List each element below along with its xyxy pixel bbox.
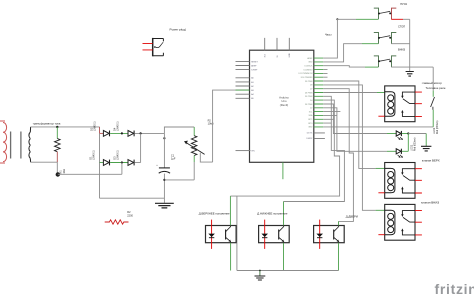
optocoupler U2 body	[206, 226, 237, 243]
wire AC1 red drop to D2	[99, 127, 101, 133]
wire to D1 anode	[100, 162, 104, 164]
junction top row	[121, 132, 123, 134]
svg-text:Часы: Часы	[325, 33, 332, 37]
wire to relay K1 coil	[323, 92, 377, 94]
wire bus wall to gnd bus	[236, 196, 238, 270]
wire to LED2	[323, 108, 387, 152]
diode D4	[128, 131, 134, 137]
wire AC2 riser	[121, 163, 123, 175]
ground bus stem	[259, 270, 261, 272]
wire S1 to gnd bus	[391, 18, 403, 20]
wire cap bottom	[163, 174, 165, 203]
svg-text:Д.ДВЕРИ: Д.ДВЕРИ	[346, 214, 358, 218]
wire LED1 to LED2 node	[407, 134, 409, 152]
svg-text:D5 PWM: D5 PWM	[305, 96, 313, 98]
svg-text:трансформатор тока: трансформатор тока	[33, 122, 61, 126]
relay K3 right pins	[415, 211, 422, 235]
wire transformer bottom	[31, 161, 58, 163]
svg-text:главный мотор: главный мотор	[422, 81, 442, 85]
relay K1 contacts	[402, 92, 415, 96]
wire opto U4 emitter down	[338, 243, 340, 271]
wire opto U2 emitter down	[230, 243, 232, 271]
optocoupler U3 LED	[261, 234, 268, 237]
ground switches	[406, 72, 414, 77]
optocoupler U2 transistor	[225, 230, 227, 240]
svg-text:Тепловое реле: Тепловое реле	[426, 86, 446, 90]
transformer T1 secondary coil	[29, 127, 31, 162]
optocoupler U3 body	[259, 226, 290, 243]
svg-text:(1N4001): (1N4001)	[95, 121, 97, 131]
rheostat lead bottom	[193, 156, 195, 163]
transformer T1 core	[11, 132, 21, 159]
svg-text:1µF: 1µF	[171, 157, 176, 161]
svg-text:D9 PWM: D9 PWM	[305, 81, 313, 83]
svg-text:+: +	[156, 164, 158, 167]
optocoupler U4 body	[314, 226, 345, 243]
relay K1 coil	[385, 92, 395, 116]
svg-text:D4: D4	[112, 127, 116, 131]
svg-text:fritzing: fritzing	[435, 281, 474, 297]
svg-text:клапан ВНИЗ: клапан ВНИЗ	[421, 200, 439, 204]
relay K2 coil	[385, 168, 395, 192]
svg-text:AREF: AREF	[307, 57, 313, 60]
svg-text:D10 PWM/SS: D10 PWM/SS	[301, 77, 313, 79]
relay K3 contacts	[402, 211, 415, 215]
wire bridge right vertical	[140, 133, 142, 162]
wire LED1 to ground	[408, 133, 426, 135]
svg-text:LED1: LED1	[410, 144, 413, 151]
Arduino right pins	[314, 58, 324, 127]
wire to opto U4	[323, 89, 353, 222]
resistor R1 lead bottom	[56, 152, 58, 163]
wire bridge left vertical DC-	[99, 133, 101, 198]
wire to opto U2	[230, 100, 339, 196]
svg-text:(1N4001): (1N4001)	[118, 121, 120, 131]
junction cap bottom	[163, 179, 165, 181]
svg-text:D8: D8	[310, 85, 312, 87]
rheostat R2 lead top	[193, 127, 195, 136]
svg-text:D3: D3	[112, 156, 116, 160]
svg-text:10Ω: 10Ω	[63, 169, 66, 174]
transformer T1 primary coil	[0, 121, 7, 163]
relay K3 body	[385, 204, 415, 240]
svg-text:ВНИЗ: ВНИЗ	[398, 48, 405, 52]
Arduino pin VIN	[236, 150, 251, 152]
optocoupler U3 LED pins	[264, 220, 266, 249]
switch S3 VNIZ	[374, 56, 379, 67]
relay K2 contacts	[402, 169, 415, 173]
wire LED1 cathode	[402, 133, 409, 135]
switch S1 PUSK	[374, 8, 379, 19]
LED LED2	[396, 149, 401, 154]
junction cap top	[163, 137, 165, 139]
ground LEDs	[421, 146, 431, 151]
wire to thermal relay contact	[323, 126, 433, 128]
switch S2 STOP	[374, 33, 379, 44]
rheostat arrow	[186, 142, 205, 154]
junction LED1 out	[407, 132, 409, 134]
ground optos	[255, 276, 266, 280]
optocoupler U4 transistor	[333, 230, 335, 240]
svg-text:D12/MISO: D12/MISO	[304, 69, 313, 71]
resistor R3 2200	[105, 220, 129, 224]
svg-text:Red (633nm): Red (633nm)	[437, 120, 439, 134]
wire stubs unused pins	[323, 70, 327, 78]
svg-text:(1N4001): (1N4001)	[118, 150, 120, 160]
wire wiper riser to A3	[213, 90, 236, 162]
svg-text:D4: D4	[310, 100, 312, 102]
wire to rheostat bottom	[164, 179, 194, 181]
wire to switch S2	[323, 44, 362, 62]
svg-text:(1N4001): (1N4001)	[94, 150, 96, 160]
wire S3 to thermal branch	[391, 66, 433, 68]
svg-text:3V3: 3V3	[265, 54, 267, 57]
svg-text:(Rev3): (Rev3)	[280, 103, 288, 107]
wire to opto U3	[284, 96, 345, 201]
svg-text:Power plug): Power plug)	[170, 28, 187, 32]
wire wiper elbow	[200, 153, 212, 162]
svg-text:AREF: AREF	[251, 64, 257, 67]
power plug pins	[143, 44, 153, 50]
svg-text:INT1: INT1	[308, 119, 312, 121]
optocoupler U2 LED pins	[211, 220, 213, 249]
svg-text:Д.ВЕРХНЕЕ положение: Д.ВЕРХНЕЕ положение	[199, 211, 230, 215]
relay K2 left coil pin	[378, 192, 384, 194]
svg-text:D2: D2	[89, 127, 93, 131]
svg-text:ПУСК: ПУСК	[400, 2, 407, 6]
relay K3 left coil pin	[378, 234, 384, 236]
Arduino TX RX stub pins	[314, 133, 325, 139]
svg-text:RESET: RESET	[251, 61, 258, 63]
wire net AC2 to bridge	[58, 173, 122, 175]
optocoupler U4 LED pins	[319, 220, 321, 249]
junction switch S1 corner	[336, 18, 338, 20]
optocoupler U2 LED	[208, 234, 215, 237]
wire stubs lower pins	[323, 112, 340, 124]
relay K1 left coil pin	[378, 115, 384, 117]
rheostat R2	[191, 136, 197, 156]
junction node AC1/R1	[56, 126, 58, 128]
relay K2 body	[385, 163, 415, 199]
wire net AC1 top rail	[31, 126, 100, 128]
svg-text:GND: GND	[289, 53, 291, 58]
relay K2 right pins	[415, 169, 422, 193]
svg-text:D0/RX: D0/RX	[307, 138, 314, 140]
junction node R1 bottom (big)	[56, 172, 60, 176]
thermal relay contact F1	[431, 97, 435, 110]
Arduino U1 body	[250, 50, 314, 162]
capacitor C1	[156, 164, 170, 173]
Arduino left pins	[236, 61, 250, 98]
svg-text:VIN: VIN	[251, 151, 255, 153]
svg-text:СТОП: СТОП	[398, 25, 405, 29]
svg-text:2200: 2200	[127, 215, 133, 218]
wire D4 cathode to DC+ node	[135, 132, 165, 134]
wire opto U4 collector up	[338, 221, 340, 225]
wire D2 cathode to D4 anode	[110, 132, 128, 134]
wire to LED1	[323, 104, 387, 134]
wire D3 cathode	[135, 162, 141, 164]
svg-text:GND: GND	[308, 62, 313, 64]
diode D2	[103, 131, 109, 137]
wire to relay K3 coil	[323, 85, 375, 210]
wire thermal branch upper	[432, 67, 434, 91]
resistor R1 lead top	[56, 127, 58, 139]
svg-text:INT0: INT0	[308, 123, 312, 125]
LED LED1	[396, 131, 401, 136]
wire LED2 cathode	[402, 150, 409, 152]
wire S2 to gnd bus	[391, 43, 409, 45]
wire D1 cathode to D3 anode	[110, 162, 128, 164]
ground main	[155, 203, 174, 208]
svg-text:Red (633nm): Red (633nm)	[415, 137, 417, 151]
junction D4 out	[140, 132, 142, 134]
wire to switch S3	[323, 66, 365, 67]
svg-text:C1: C1	[171, 153, 175, 157]
wire cap drop	[163, 133, 165, 167]
svg-text:клапан ВЕРХ: клапан ВЕРХ	[422, 158, 440, 162]
wire DC+ riser and rail	[164, 127, 194, 133]
wire opto U3 emitter down	[283, 243, 285, 271]
relay K1 body	[385, 86, 415, 122]
svg-text:D1: D1	[88, 156, 92, 160]
diode D3	[128, 160, 134, 166]
optocoupler U3 transistor	[278, 230, 280, 240]
svg-text:Д.НИЖНЕЕ положение: Д.НИЖНЕЕ положение	[257, 211, 288, 215]
svg-text:D11 PWM/MOSI: D11 PWM/MOSI	[299, 73, 313, 75]
relay K3 coil	[385, 210, 395, 234]
wire opto U3 collector up	[283, 202, 285, 226]
Arduino bottom GND pin	[282, 162, 284, 179]
svg-text:GND: GND	[308, 127, 313, 129]
optocoupler U4 LED	[316, 234, 323, 237]
resistor R1	[55, 139, 61, 152]
svg-text:D3 PWM: D3 PWM	[305, 104, 313, 106]
Arduino top pins 3V3 5V GND	[265, 38, 290, 50]
diode D1	[103, 160, 109, 166]
svg-text:D6 PWM: D6 PWM	[305, 92, 313, 94]
wire switches common to ground	[409, 19, 411, 71]
wire to relay K2 coil	[323, 81, 375, 168]
svg-text:SCL: SCL	[309, 111, 313, 113]
svg-text:IOREF: IOREF	[251, 70, 258, 72]
wire ground bus bottom	[237, 270, 339, 272]
junction bottom row	[121, 161, 123, 163]
svg-text:D2: D2	[310, 108, 312, 110]
relay K1 right pins	[415, 92, 422, 116]
wire bottom DC- rail	[100, 197, 165, 199]
svg-text:LED2: LED2	[433, 127, 436, 134]
wire opto U2 collector up	[229, 196, 231, 225]
power plug J1	[153, 38, 164, 56]
svg-text:D13/SCK: D13/SCK	[305, 66, 314, 68]
svg-text:D7: D7	[310, 89, 312, 91]
svg-text:D1/TX: D1/TX	[307, 133, 313, 135]
wire to switch S1	[323, 19, 356, 58]
